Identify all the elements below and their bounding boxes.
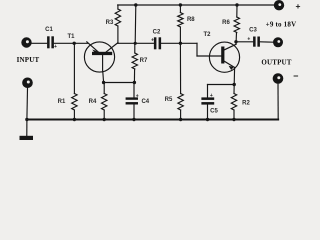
svg-text:R8: R8 <box>187 17 195 23</box>
wire: emitter node to C5 corner <box>208 85 235 98</box>
node: R1 on ground rail <box>73 118 76 121</box>
svg-text:C3: C3 <box>249 28 257 34</box>
svg-text:C5: C5 <box>210 108 218 114</box>
capacitor C1 <box>47 36 54 48</box>
label C2 <box>153 30 161 36</box>
polarity + of C4 <box>136 93 139 99</box>
wire: rail down to collector wire <box>134 5 137 43</box>
svg-text:+: + <box>247 37 250 43</box>
svg-text:C1: C1 <box>45 27 53 33</box>
output jack ground terminal <box>273 73 284 84</box>
wire: rail down to R6 <box>236 5 238 17</box>
label R8 <box>187 17 195 23</box>
node: C4 on ground rail <box>132 118 135 121</box>
svg-text:+9 to 18V: +9 to 18V <box>266 21 297 29</box>
wire: emitter node down to R2 <box>233 85 235 94</box>
svg-text:R3: R3 <box>106 20 114 26</box>
input jack ground terminal <box>22 78 33 89</box>
polarity + of C3 <box>247 37 250 43</box>
svg-text:T2: T2 <box>203 32 211 38</box>
wire: output ground terminal to rail <box>277 84 279 120</box>
node: ground corner <box>25 118 28 121</box>
wire: C5 bottom lead <box>207 105 209 120</box>
svg-text:+: + <box>54 44 57 50</box>
node: emitter/R4 junction <box>102 81 105 84</box>
resistor R3 <box>115 9 120 43</box>
wire: node down to R4 <box>103 83 105 94</box>
wire: rail corner down to R3 <box>117 5 119 9</box>
label C3 <box>249 28 257 34</box>
svg-text:R4: R4 <box>89 99 97 105</box>
wire: ground bottom rail <box>27 119 278 121</box>
node: R4 on ground rail <box>103 118 106 121</box>
wire: +V top rail <box>118 4 274 6</box>
label C4 <box>141 99 149 105</box>
label R4 <box>89 99 97 105</box>
svg-text:R7: R7 <box>140 58 148 64</box>
resistor R2 <box>231 94 236 120</box>
node: C5 on ground rail <box>206 118 209 121</box>
transistor T2 <box>209 42 239 84</box>
svg-text:R2: R2 <box>242 101 250 107</box>
resistor R4 <box>101 94 106 120</box>
node: R7/C4 on emitter wire <box>133 81 136 84</box>
capacitor C5 <box>201 97 214 104</box>
node: rail junction above R8 <box>179 3 182 6</box>
resistor R7 <box>132 53 137 83</box>
node: rail junction above R6 <box>235 3 238 6</box>
wire: C2 to base junction <box>161 42 197 44</box>
ground <box>20 120 34 141</box>
svg-text:T1: T1 <box>67 34 75 40</box>
wire: junction down to R1 <box>73 43 75 93</box>
wire: input ground terminal to rail <box>26 88 29 119</box>
label R6 <box>222 20 230 26</box>
wire: C1 to T1 base <box>54 42 88 44</box>
resistor R5 <box>178 94 183 120</box>
resistor R8 <box>178 13 183 44</box>
node: R8/R5/base junction <box>179 42 182 45</box>
svg-text:INPUT: INPUT <box>17 56 40 64</box>
label T1 <box>67 34 75 40</box>
label R1 <box>58 99 66 105</box>
input jack signal terminal <box>21 37 31 47</box>
wire: junction down to R5 <box>179 43 181 93</box>
svg-text:+: + <box>136 93 139 99</box>
svg-text:+: + <box>210 93 213 99</box>
label R2 <box>242 101 250 107</box>
wire: C3 to output jack <box>260 41 273 43</box>
svg-text:R6: R6 <box>222 20 230 26</box>
label R5 <box>165 97 173 103</box>
svg-text:R1: R1 <box>58 99 66 105</box>
wire: C4 bottom lead <box>133 105 135 120</box>
wire: jog down to T2 base <box>197 43 221 56</box>
polarity + of C5 <box>210 93 213 99</box>
wire: junction down to R7 <box>134 43 136 53</box>
wire: input jack to C1 <box>32 42 47 44</box>
node: R5 on ground rail <box>179 118 182 121</box>
label - of output <box>293 71 298 81</box>
label OUTPUT <box>261 59 292 67</box>
svg-text:+: + <box>151 37 154 43</box>
output jack signal terminal <box>273 37 283 47</box>
capacitor C4 <box>126 97 138 104</box>
svg-text:OUTPUT: OUTPUT <box>261 59 292 67</box>
svg-text:C4: C4 <box>141 99 149 105</box>
wire: collector node to C3 <box>236 41 253 43</box>
node: junction on collector wire <box>134 42 137 45</box>
supply terminal +V <box>274 0 284 10</box>
wire: T1 emitter down to node <box>102 72 105 83</box>
label T2 <box>203 32 211 38</box>
label C1 <box>45 27 53 33</box>
svg-text:C2: C2 <box>153 30 161 36</box>
node: rail junction above R7 <box>134 3 137 6</box>
resistor R1 <box>72 94 77 120</box>
wire: T1 emitter node wire <box>104 82 135 84</box>
label INPUT <box>17 56 40 64</box>
polarity + of C1 <box>54 44 57 50</box>
node: T2 collector / C3 junction <box>234 40 237 43</box>
svg-text:−: − <box>293 71 298 81</box>
wire: T1 collector node to C2 <box>118 42 154 44</box>
label +9 to 18V <box>266 21 297 29</box>
label R7 <box>140 58 148 64</box>
capacitor C3 <box>253 37 260 47</box>
label + of supply <box>296 1 301 11</box>
svg-text:R5: R5 <box>165 97 173 103</box>
svg-text:+: + <box>296 1 301 11</box>
wire: rail down to R8 <box>179 5 181 13</box>
resistor R6 <box>234 17 239 44</box>
node: junction C1/R1/base <box>73 42 76 45</box>
transistor T1 <box>84 42 118 72</box>
node: R2 on ground rail <box>232 118 235 121</box>
polarity + of C2 <box>151 37 154 43</box>
node: T2 emitter junction <box>233 83 236 86</box>
label C5 <box>210 108 218 114</box>
capacitor C2 <box>154 37 161 49</box>
label R3 <box>106 20 114 26</box>
wire: C4 top lead <box>133 83 135 98</box>
